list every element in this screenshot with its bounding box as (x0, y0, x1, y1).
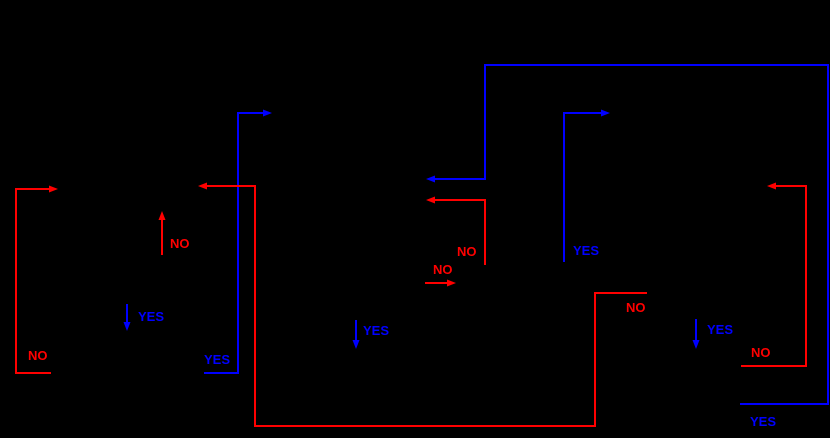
svg-text:NO: NO (28, 348, 48, 363)
svg-text:NO: NO (457, 244, 477, 259)
svg-text:YES: YES (750, 414, 776, 429)
svg-text:YES: YES (204, 352, 230, 367)
svg-text:YES: YES (363, 323, 389, 338)
svg-text:NO: NO (751, 345, 771, 360)
svg-text:YES: YES (138, 309, 164, 324)
svg-text:NO: NO (626, 300, 646, 315)
svg-text:NO: NO (433, 262, 453, 277)
svg-text:NO: NO (170, 236, 190, 251)
svg-text:YES: YES (707, 322, 733, 337)
svg-text:YES: YES (573, 243, 599, 258)
